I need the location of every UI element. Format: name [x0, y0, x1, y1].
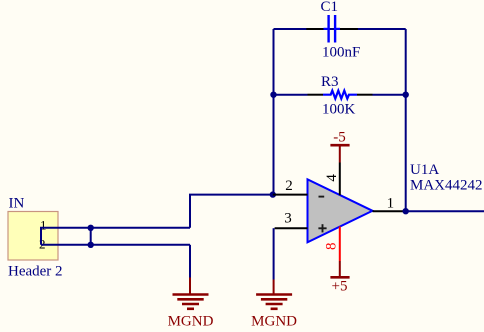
power +5 bar — [330, 276, 349, 279]
connector P1 body (Header 2) — [8, 212, 58, 261]
wire: non-inverting input down to MGND — [273, 228, 275, 279]
wire: R3 row left — [274, 94, 308, 96]
ground MGND 2 — [256, 295, 292, 309]
wire: top horizontal (C1 row) — [274, 28, 406, 30]
svg-text:Header 2: Header 2 — [8, 264, 63, 280]
svg-text:3: 3 — [284, 211, 292, 227]
ground MGND 1 — [173, 295, 209, 309]
pin 4 stub — [339, 163, 341, 196]
op-amp U1A triangle — [308, 179, 373, 242]
wire: short vertical tie between pin1 and pin2 nets — [90, 228, 92, 245]
pin stubs (black) — [306, 28, 323, 30]
power +5 wire — [339, 261, 341, 277]
svg-text:2: 2 — [285, 178, 293, 194]
pin 3 stub — [275, 227, 308, 229]
svg-text:MGND: MGND — [168, 314, 214, 330]
wire: header pin1 to bend — [41, 228, 190, 245]
pin stubs (black) — [308, 94, 324, 96]
plates — [327, 15, 329, 43]
capacitor C1 — [306, 15, 358, 43]
pin 1 stub (output) — [373, 210, 406, 212]
svg-text:+5: +5 — [332, 279, 348, 295]
svg-text:8: 8 — [324, 243, 340, 251]
wire: down from pin2 run to MGND — [189, 245, 191, 278]
zigzag — [323, 91, 357, 99]
wire: R3 row right — [373, 94, 406, 96]
output wire — [406, 210, 484, 212]
svg-text:1: 1 — [387, 196, 395, 212]
resistor R3 — [308, 91, 373, 99]
svg-text:100nF: 100nF — [322, 45, 360, 61]
blue leads — [324, 28, 328, 30]
junction dot on pin1 wire — [88, 225, 94, 231]
wire: up from bend to inverting input run — [190, 195, 273, 228]
plus marker — [318, 227, 326, 229]
wire: header pin2 run — [41, 244, 190, 246]
svg-text:R3: R3 — [321, 74, 339, 90]
svg-text:4: 4 — [324, 174, 340, 182]
power -5 bar — [330, 144, 349, 147]
svg-text:MGND: MGND — [251, 314, 297, 330]
svg-text:C1: C1 — [321, 0, 339, 15]
svg-text:IN: IN — [9, 196, 25, 212]
junction dot on pin2 wire — [88, 242, 94, 248]
junction dot at output — [403, 208, 409, 214]
svg-text:100K: 100K — [322, 102, 356, 118]
wire (maroon) into ground 1 — [189, 278, 191, 295]
junction dot right R3 — [403, 92, 409, 98]
pin 8 stub (red) — [339, 227, 341, 262]
junction dot left R3 — [270, 92, 276, 98]
pin 2 stub — [273, 194, 308, 196]
power -5 wire — [339, 145, 341, 162]
wire: right vertical of loop — [405, 29, 407, 211]
svg-text:-5: -5 — [333, 130, 346, 146]
svg-text:MAX44242: MAX44242 — [410, 178, 483, 194]
svg-text:U1A: U1A — [410, 162, 439, 178]
wire: left vertical of loop — [273, 29, 275, 195]
minus marker — [319, 196, 325, 198]
wire (maroon) into ground 2 — [273, 280, 275, 295]
junction dot at inverting input — [270, 191, 276, 197]
